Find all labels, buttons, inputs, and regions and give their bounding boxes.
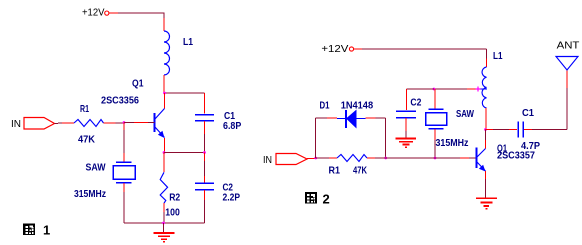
svg-text:315MHz: 315MHz xyxy=(436,137,469,149)
power port circle (left) xyxy=(105,11,109,15)
wire tap to SAW/C2 node xyxy=(467,88,478,90)
wire +12V to L1 corner xyxy=(109,12,118,14)
node SAW bottom junction xyxy=(434,157,437,160)
node collector junction (right) xyxy=(484,128,487,131)
wire C2 top lead (right) xyxy=(405,89,407,110)
svg-text:6.8P: 6.8P xyxy=(223,120,241,132)
node ground junction xyxy=(162,222,165,225)
wire loop top left segment xyxy=(316,117,327,119)
wire C2 bottom lead (right) xyxy=(405,118,407,131)
antenna symbol xyxy=(556,57,578,71)
node C1/C2 junction xyxy=(203,151,206,154)
svg-text:IN: IN xyxy=(11,119,21,130)
svg-text:R1: R1 xyxy=(80,103,89,115)
wire IN to R1 xyxy=(55,122,63,125)
svg-text:100: 100 xyxy=(165,206,180,218)
transistor Q1 (left) emitter arrow xyxy=(158,131,165,138)
wire C1 right lead xyxy=(524,129,532,131)
svg-text:4.7P: 4.7P xyxy=(521,140,540,152)
wire +12V rail (right) xyxy=(354,48,362,50)
wire collector node to C1 (right) xyxy=(486,129,494,131)
wire emitter lead down xyxy=(164,138,166,153)
power port circle (right) xyxy=(349,47,353,51)
resistor R1 (right) xyxy=(337,155,367,162)
capacitor C1 (right) xyxy=(518,122,523,138)
svg-text:+12V: +12V xyxy=(82,8,105,19)
node base junction (left) xyxy=(123,121,126,124)
wire loop left vertical xyxy=(315,118,317,158)
wire IN node to R1 xyxy=(316,157,329,159)
wire antenna stem xyxy=(566,88,568,130)
node emitter junction xyxy=(163,151,166,154)
SAW resonator (right) xyxy=(426,109,447,129)
transistor Q1 (left) collector lead xyxy=(164,93,166,109)
svg-text:L1: L1 xyxy=(183,36,193,48)
svg-text:C2: C2 xyxy=(410,97,421,109)
wire SAW node to C2 corner xyxy=(406,88,434,90)
wire base node to Q1 base xyxy=(124,122,134,124)
wire SAW top lead (right) xyxy=(434,89,436,109)
figure label 图 1 xyxy=(23,223,50,238)
svg-text:2: 2 xyxy=(323,191,330,206)
node collector junction (left) xyxy=(163,92,166,95)
svg-text:1N4148: 1N4148 xyxy=(341,100,374,112)
node loop right junction xyxy=(384,157,387,160)
wire coil bottom to collector node xyxy=(485,108,487,130)
wire ground stem xyxy=(163,223,165,232)
wire corner down to coil xyxy=(163,18,165,31)
wire coil bottom to collector node xyxy=(163,75,165,93)
SAW resonator (left) xyxy=(113,162,135,183)
resistor R2 xyxy=(160,172,167,203)
diode D1 anode pin xyxy=(357,118,366,120)
svg-text:1: 1 xyxy=(43,223,50,238)
svg-text:+12V: +12V xyxy=(321,44,348,55)
wire IN to loop node xyxy=(307,158,316,160)
svg-text:R1: R1 xyxy=(329,165,341,177)
svg-text:SAW: SAW xyxy=(456,108,474,120)
wire C1 bottom lead xyxy=(204,121,206,134)
capacitor C2 (right) xyxy=(396,111,416,118)
diode D1 body xyxy=(346,110,357,129)
wire SAW bottom lead (right) xyxy=(434,129,436,140)
svg-text:315MHz: 315MHz xyxy=(74,188,106,200)
node SAW junction (right) xyxy=(433,88,436,91)
capacitor C1 (left) xyxy=(195,115,214,121)
transistor Q1 (right) collector lead xyxy=(485,130,487,141)
ground under C2 xyxy=(396,139,417,148)
wire R1 to base node xyxy=(104,122,116,124)
svg-text:D1: D1 xyxy=(320,100,330,112)
svg-text:L1: L1 xyxy=(493,50,503,62)
wire base node down to SAW xyxy=(123,123,125,131)
inductor L1 (left) xyxy=(164,31,170,75)
inductor tap pin xyxy=(478,88,488,90)
svg-text:SAW: SAW xyxy=(86,162,106,174)
wire bottom bus (left) xyxy=(124,222,205,224)
svg-text:C1: C1 xyxy=(522,107,534,119)
svg-text:ANT: ANT xyxy=(557,40,580,51)
ground under emitter xyxy=(476,198,497,209)
transistor Q1 (right) body xyxy=(477,148,486,172)
wire emitter row xyxy=(164,152,205,154)
node loop left junction xyxy=(314,157,317,160)
inductor L1 (right, tapped) xyxy=(482,67,486,108)
wire loop right node to SAW node xyxy=(386,157,435,159)
svg-text:47K: 47K xyxy=(353,165,367,177)
wire C1 top lead xyxy=(204,93,206,114)
svg-text:Q1: Q1 xyxy=(132,77,144,89)
svg-text:2SC3356: 2SC3356 xyxy=(101,94,139,106)
wire collector node to C1 xyxy=(164,92,205,94)
node tap connection xyxy=(476,87,481,92)
wire emitter lead down xyxy=(485,171,487,179)
diode D1 cathode bar xyxy=(345,110,347,128)
wire C2 bottom lead xyxy=(204,190,206,200)
ground (left) xyxy=(154,233,175,242)
svg-text:47K: 47K xyxy=(78,134,95,146)
resistor R1 (left) xyxy=(74,120,104,127)
wire C2 top lead xyxy=(204,153,206,162)
svg-text:2.2P: 2.2P xyxy=(223,192,241,204)
figure label 图 2 xyxy=(305,191,330,206)
wire R1 to loop right node xyxy=(367,157,375,159)
wire R2 bottom lead xyxy=(163,203,165,212)
transistor Q1 (right) emitter arrow xyxy=(479,165,486,172)
wire rail corner down xyxy=(486,49,488,59)
capacitor C2 (left) xyxy=(195,183,214,190)
transistor Q1 (left) body xyxy=(155,109,165,138)
svg-text:R2: R2 xyxy=(169,191,180,203)
wire SAW bottom lead xyxy=(123,183,125,192)
wire loop right vertical xyxy=(385,118,387,158)
wire R2 top lead xyxy=(163,153,165,173)
diode D1 cathode pin xyxy=(337,118,346,120)
wire loop top right segment xyxy=(366,117,376,119)
wire SAW node to Q1 base xyxy=(435,157,460,159)
svg-text:IN: IN xyxy=(263,155,272,166)
